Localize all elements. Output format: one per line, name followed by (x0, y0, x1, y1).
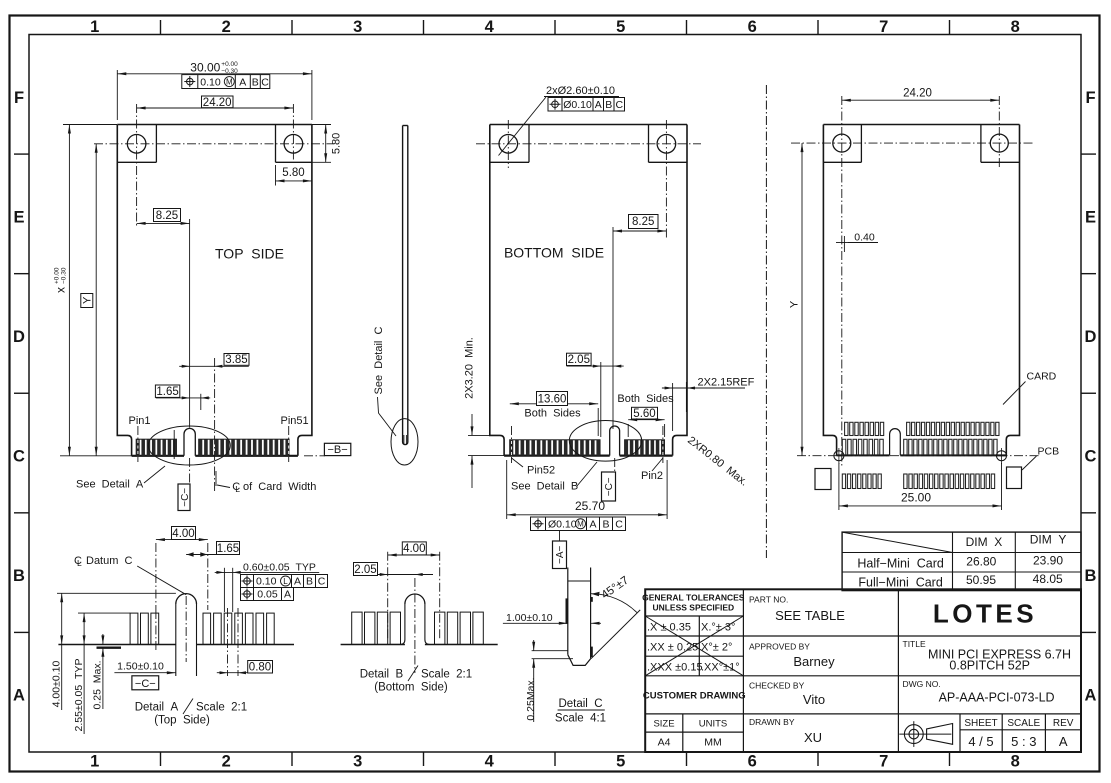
svg-text:A: A (589, 518, 596, 530)
svg-text:48.05: 48.05 (1033, 572, 1063, 586)
svg-text:TITLE: TITLE (903, 639, 926, 649)
svg-text:2.05: 2.05 (354, 564, 376, 576)
svg-text:−0.30: −0.30 (221, 68, 238, 75)
svg-text:2: 2 (222, 18, 231, 36)
svg-text:B: B (13, 567, 25, 585)
svg-text:XU: XU (804, 730, 822, 745)
svg-text:B: B (306, 576, 313, 588)
svg-text:x: x (54, 287, 68, 293)
svg-text:0.80: 0.80 (249, 662, 271, 674)
svg-text:PCB: PCB (1038, 446, 1060, 458)
svg-text:L: L (235, 484, 240, 494)
svg-text:5 : 3: 5 : 3 (1011, 734, 1036, 749)
svg-text:UNLESS SPECIFIED: UNLESS SPECIFIED (652, 603, 734, 613)
svg-text:0.60±0.05 TYP: 0.60±0.05 TYP (243, 562, 316, 574)
svg-text:26.80: 26.80 (966, 555, 996, 569)
svg-text:Both Sides: Both Sides (524, 408, 581, 420)
svg-text:1: 1 (90, 753, 99, 771)
svg-text:DWG NO.: DWG NO. (903, 679, 941, 689)
svg-text:MM: MM (704, 737, 722, 749)
svg-text:4: 4 (485, 18, 495, 36)
svg-text:2.05: 2.05 (568, 354, 590, 366)
svg-text:A: A (1085, 687, 1097, 705)
svg-text:1.65: 1.65 (217, 543, 239, 555)
svg-text:X°± 2°: X°± 2° (701, 642, 732, 654)
svg-text:Pin1: Pin1 (128, 415, 150, 427)
svg-text:4.00: 4.00 (403, 543, 425, 555)
svg-text:25.00: 25.00 (901, 491, 931, 505)
svg-text:8: 8 (1011, 18, 1020, 36)
svg-text:(Top Side): (Top Side) (154, 715, 210, 727)
svg-text:0.10: 0.10 (256, 576, 277, 588)
svg-text:4 / 5: 4 / 5 (968, 734, 993, 749)
svg-text:CHECKED BY: CHECKED BY (749, 681, 805, 691)
svg-text:Pin51: Pin51 (281, 415, 309, 427)
svg-text:Datum C: Datum C (86, 555, 133, 567)
svg-text:Y: Y (789, 300, 801, 308)
svg-text:+0.00: +0.00 (54, 267, 61, 284)
svg-text:SEE TABLE: SEE TABLE (775, 608, 845, 623)
svg-text:Detail B: Detail B (360, 669, 404, 681)
svg-text:3: 3 (353, 18, 362, 36)
svg-text:2X2.15REF: 2X2.15REF (698, 377, 755, 389)
svg-text:Detail C: Detail C (558, 698, 602, 710)
svg-text:AP-AAA-PCI-073-LD: AP-AAA-PCI-073-LD (939, 691, 1055, 705)
svg-text:13.60: 13.60 (538, 393, 567, 405)
svg-text:See Detail A: See Detail A (76, 479, 144, 491)
svg-text:A: A (294, 576, 301, 588)
svg-text:of Card Width: of Card Width (243, 481, 316, 493)
svg-text:D: D (13, 328, 25, 346)
svg-text:F: F (1085, 89, 1095, 107)
svg-text:5.80: 5.80 (282, 167, 304, 179)
svg-text:−0.30: −0.30 (61, 267, 68, 284)
svg-text:8.25: 8.25 (632, 216, 654, 228)
svg-text:Scale 2:1: Scale 2:1 (196, 702, 247, 714)
svg-text:See Detail C: See Detail C (373, 327, 385, 395)
svg-text:DIM Y: DIM Y (1030, 533, 1067, 547)
svg-text:2xØ2.60±0.10: 2xØ2.60±0.10 (546, 85, 615, 97)
svg-text:PART NO.: PART NO. (749, 595, 788, 605)
svg-text:0.25Max.: 0.25Max. (525, 677, 537, 720)
svg-text:−C−: −C− (604, 477, 615, 496)
svg-text:4: 4 (485, 753, 495, 771)
svg-text:−B−: −B− (328, 444, 348, 456)
svg-text:Ø0.10: Ø0.10 (563, 99, 592, 111)
svg-text:X.°± 3°: X.°± 3° (701, 622, 735, 634)
svg-text:C: C (13, 448, 25, 466)
svg-text:.XX ± 0.25: .XX ± 0.25 (647, 642, 698, 654)
svg-text:−A−: −A− (555, 545, 566, 564)
svg-text:C: C (1085, 448, 1097, 466)
svg-text:E: E (13, 208, 24, 226)
svg-text:0.8PITCH 52P: 0.8PITCH 52P (949, 659, 1030, 673)
svg-text:See Detail B: See Detail B (511, 481, 578, 493)
svg-text:25.70: 25.70 (575, 499, 605, 513)
svg-text:F: F (14, 89, 24, 107)
svg-text:A: A (13, 687, 25, 705)
svg-text:A: A (1059, 734, 1068, 749)
svg-text:DIM X: DIM X (966, 535, 1003, 549)
svg-text:Full−Mini Card: Full−Mini Card (858, 575, 942, 589)
svg-text:C: C (318, 576, 326, 588)
svg-text:1.50±0.10: 1.50±0.10 (117, 661, 164, 673)
svg-text:50.95: 50.95 (966, 573, 996, 587)
svg-text:6: 6 (748, 18, 757, 36)
svg-text:L: L (77, 558, 82, 568)
svg-text:SIZE: SIZE (653, 719, 674, 730)
svg-text:M: M (226, 77, 233, 86)
svg-text:1: 1 (90, 18, 99, 36)
svg-text:4.00: 4.00 (172, 528, 194, 540)
svg-text:M: M (577, 520, 584, 529)
svg-text:Scale 2:1: Scale 2:1 (421, 669, 472, 681)
svg-text:3: 3 (353, 753, 362, 771)
svg-text:24.20: 24.20 (203, 97, 232, 109)
svg-text:7: 7 (879, 753, 888, 771)
svg-text:B: B (1085, 567, 1097, 585)
svg-text:Both Sides: Both Sides (617, 393, 674, 405)
svg-text:6: 6 (748, 753, 757, 771)
svg-text:(Bottom Side): (Bottom Side) (374, 682, 448, 694)
svg-text:.XXX ±0.15: .XXX ±0.15 (647, 662, 703, 674)
svg-text:0.25 Max.: 0.25 Max. (92, 660, 104, 709)
svg-text:5.80: 5.80 (331, 133, 343, 154)
svg-text:B: B (605, 99, 612, 111)
svg-text:7: 7 (879, 18, 888, 36)
svg-text:5: 5 (616, 18, 625, 36)
svg-text:A4: A4 (658, 737, 671, 749)
svg-text:TOP SIDE: TOP SIDE (215, 246, 284, 262)
svg-text:4.00±0.10: 4.00±0.10 (51, 661, 63, 708)
svg-text:Scale 4:1: Scale 4:1 (555, 713, 606, 725)
svg-text:−C−: −C− (135, 678, 156, 690)
svg-text:23.90: 23.90 (1033, 554, 1063, 568)
svg-text:Half−Mini Card: Half−Mini Card (857, 557, 944, 571)
svg-text:0.05: 0.05 (257, 589, 278, 601)
svg-text:E: E (1085, 208, 1096, 226)
svg-text:2X3.20 Min.: 2X3.20 Min. (464, 337, 476, 399)
svg-text:5.60: 5.60 (633, 408, 655, 420)
svg-text:SCALE: SCALE (1007, 718, 1040, 729)
svg-text:Detail A: Detail A (135, 702, 179, 714)
svg-text:REV: REV (1053, 718, 1074, 729)
svg-text:CUSTOMER DRAWING: CUSTOMER DRAWING (643, 691, 746, 702)
svg-text:30.00: 30.00 (190, 60, 220, 74)
svg-text:Pin52: Pin52 (527, 465, 555, 477)
svg-text:1.65: 1.65 (156, 386, 178, 398)
svg-text:0.10: 0.10 (200, 76, 221, 88)
svg-text:C: C (615, 99, 623, 111)
svg-text:L: L (283, 577, 288, 586)
svg-text:Y: Y (82, 296, 94, 304)
svg-text:LOTES: LOTES (933, 599, 1037, 629)
svg-text:24.20: 24.20 (903, 87, 932, 99)
svg-text:1.00±0.10: 1.00±0.10 (506, 612, 553, 624)
svg-text:C: C (261, 76, 269, 88)
svg-text:DRAWN BY: DRAWN BY (749, 717, 795, 727)
svg-text:CARD: CARD (1027, 371, 1057, 383)
svg-text:C: C (615, 518, 623, 530)
svg-text:.XX°±1°: .XX°±1° (701, 662, 740, 674)
svg-text:BOTTOM SIDE: BOTTOM SIDE (504, 245, 604, 261)
svg-text:A: A (595, 99, 602, 111)
svg-text:A: A (239, 76, 246, 88)
svg-text:8.25: 8.25 (156, 210, 178, 222)
svg-text:0.40: 0.40 (854, 232, 875, 244)
svg-text:Ø0.10: Ø0.10 (548, 518, 577, 530)
svg-text:2: 2 (222, 753, 231, 771)
svg-text:GENERAL TOLERANCES: GENERAL TOLERANCES (642, 593, 745, 603)
svg-text:5: 5 (616, 753, 625, 771)
svg-text:D: D (1085, 328, 1097, 346)
svg-text:Barney: Barney (793, 654, 835, 669)
svg-text:SHEET: SHEET (964, 718, 997, 729)
svg-text:Pin2: Pin2 (641, 470, 663, 482)
svg-text:B: B (252, 76, 259, 88)
svg-text:APPROVED BY: APPROVED BY (749, 642, 810, 652)
svg-text:.X ± 0.35: .X ± 0.35 (647, 622, 691, 634)
svg-text:B: B (602, 518, 609, 530)
svg-text:A: A (284, 589, 291, 601)
svg-text:8: 8 (1011, 753, 1020, 771)
svg-text:3.85: 3.85 (225, 354, 247, 366)
svg-text:−C−: −C− (180, 488, 191, 507)
svg-text:UNITS: UNITS (699, 719, 728, 730)
svg-text:2.55±0.05 TYP: 2.55±0.05 TYP (73, 659, 85, 732)
svg-text:Vito: Vito (803, 692, 825, 707)
